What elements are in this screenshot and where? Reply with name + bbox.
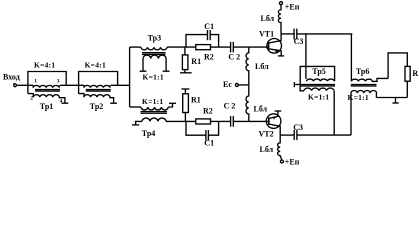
Tp4 winding top (legged)	[141, 107, 168, 110]
svg-text:Lбл: Lбл	[254, 104, 268, 113]
svg-text:C 2: C 2	[224, 101, 236, 110]
svg-text:C 2: C 2	[228, 53, 240, 62]
wire Tp2 to splitter	[111, 84, 130, 86]
input terminal Вход	[3, 72, 20, 86]
wire collector node top	[281, 33, 294, 35]
Tp4 right leg up	[168, 103, 172, 107]
emitter line up	[269, 111, 278, 118]
wire down to Tp5	[305, 34, 307, 67]
wire R bottom	[406, 81, 408, 97]
Tp5 box	[300, 66, 334, 84]
inductor Lbl collector VT2	[260, 135, 282, 160]
inverted ground at R1 bottom	[181, 88, 189, 90]
terminal Ec	[223, 80, 238, 89]
wire input to Tp1	[17, 84, 34, 86]
capacitor C3 top	[294, 29, 304, 46]
svg-text:Вход: Вход	[3, 72, 20, 81]
svg-text:K=1:1: K=1:1	[308, 93, 329, 102]
wire C2 to VT1 base	[233, 46, 268, 48]
svg-text:Lбл: Lбл	[261, 14, 275, 23]
collector line	[269, 34, 282, 43]
emitter line	[269, 49, 282, 56]
Tp6 winding 2	[351, 91, 377, 94]
wire R2b to C2b	[211, 120, 231, 122]
inverted ground at VT2 emitter	[275, 110, 282, 112]
svg-text:3: 3	[57, 79, 60, 85]
Tp4 core	[141, 111, 168, 113]
Tp3 core	[142, 52, 166, 54]
Tp3 left foot	[140, 70, 147, 72]
svg-text:C3: C3	[293, 123, 303, 132]
svg-text:C1: C1	[204, 22, 214, 31]
Tp5 left terminal bar	[293, 82, 295, 87]
collector line down	[269, 124, 280, 135]
Tp1 outline	[28, 72, 66, 94]
Tp6 winding 1	[351, 78, 388, 81]
wire Tp6 winding2 to ground line	[375, 93, 377, 97]
Tp2 core	[86, 89, 111, 91]
wire down to Tp6	[350, 34, 352, 82]
inductor Lbl collector VT1	[261, 5, 282, 34]
svg-text:C3: C3	[294, 37, 304, 46]
svg-text:+Еп: +Еп	[285, 3, 300, 12]
transistor VT2	[259, 111, 281, 139]
svg-text:+Еп: +Еп	[285, 157, 300, 166]
wire C2b to VT2 base	[233, 120, 268, 122]
Tp3 winding bottom	[143, 55, 166, 59]
resistor R2 top	[196, 45, 214, 62]
Tp4 winding bottom (through)	[142, 118, 166, 121]
capacitor C1 bottom	[186, 121, 219, 147]
transformer Tp2	[79, 60, 118, 111]
svg-text:R2: R2	[204, 53, 214, 62]
Tp1 winding 2-4	[28, 94, 59, 98]
svg-text:Тр2: Тр2	[90, 102, 103, 111]
emitter arrow	[275, 49, 278, 52]
svg-text:Тр5: Тр5	[312, 67, 325, 76]
Tp3 right leg	[165, 59, 167, 72]
wire Ec to chokes	[238, 84, 248, 86]
wire Tp1 to Tp2	[60, 84, 84, 86]
resistor R load	[405, 66, 418, 81]
capacitor C3 bottom	[293, 123, 303, 140]
ground at VT1 emitter	[278, 55, 284, 57]
Tp1 pin4 wire	[59, 97, 65, 103]
wire C3b to Tp6 leg	[297, 134, 351, 136]
Tp2 winding bottom	[79, 94, 110, 98]
capacitor C2 bottom	[224, 101, 236, 126]
svg-text:Ес: Ес	[223, 80, 232, 89]
Tp2 outline	[79, 72, 118, 94]
svg-text:Тр1: Тр1	[40, 102, 53, 111]
svg-text:K=1:1: K=1:1	[143, 72, 164, 81]
Tp3 winding top (through)	[141, 47, 167, 50]
svg-text:Тр6: Тр6	[356, 67, 369, 76]
ground at Tp1 pin 4	[62, 102, 69, 104]
wire Tp4 to R2 bottom	[166, 120, 196, 122]
Tp4 top bar	[169, 102, 176, 104]
ground stub at R	[395, 98, 397, 103]
Tp6 core	[351, 84, 377, 86]
Tp4 left leg down	[136, 121, 142, 124]
wire splitter to Tp4	[130, 106, 141, 108]
ground line at R bottom	[376, 97, 407, 99]
ground bar at R	[392, 102, 398, 104]
capacitor C2 top	[228, 42, 240, 62]
svg-text:R: R	[412, 69, 418, 78]
wire collector node bottom	[280, 134, 294, 136]
svg-text:VT2: VT2	[259, 130, 274, 139]
resistor R1 top	[180, 47, 201, 73]
Tp2 winding top	[84, 85, 110, 87]
wire R top	[388, 53, 407, 78]
Tp2 ground wire	[110, 97, 114, 103]
Tp5 winding 1	[306, 79, 334, 81]
inductor Lbl base bottom	[246, 85, 268, 122]
capacitor C1 top	[186, 22, 219, 47]
resistor R1 bottom	[181, 89, 200, 121]
Tp3 right foot	[163, 70, 170, 72]
svg-text:Lбл: Lбл	[260, 145, 274, 154]
ground bar at Tp4	[132, 124, 139, 126]
svg-text:4: 4	[60, 99, 63, 105]
ground at R1	[180, 72, 192, 74]
terminal +Ep bottom	[280, 157, 299, 166]
Tp3 left leg	[142, 59, 144, 72]
Tp1 winding 1-3	[33, 85, 59, 87]
svg-text:Тр3: Тр3	[148, 34, 161, 43]
svg-text:Lбл: Lбл	[255, 62, 269, 71]
wire C3 to Tp6 feed	[297, 33, 353, 35]
svg-text:K=4:1: K=4:1	[34, 60, 55, 69]
Tp5 feed stub	[305, 66, 307, 79]
Tp5 core	[300, 84, 335, 86]
svg-text:VT1: VT1	[259, 30, 274, 39]
svg-text:R1: R1	[191, 57, 201, 66]
svg-text:2: 2	[30, 96, 33, 102]
transistor VT1	[259, 30, 282, 56]
ground at Tp2	[110, 102, 117, 104]
svg-text:1: 1	[34, 79, 37, 85]
wire Tp3 to R2	[167, 46, 196, 48]
emitter arrow	[273, 117, 276, 120]
transformer Tp3	[130, 34, 170, 82]
wire Tp5 down	[333, 91, 335, 135]
wire Tp6 down	[350, 93, 352, 135]
splitter vertical wire	[129, 47, 131, 107]
svg-text:K=1:1: K=1:1	[142, 97, 163, 106]
svg-text:Тр4: Тр4	[142, 129, 155, 138]
svg-text:R2: R2	[203, 107, 213, 116]
svg-text:R1: R1	[191, 96, 201, 105]
svg-text:K=4:1: K=4:1	[85, 60, 106, 69]
wire R2 to C2	[211, 46, 231, 48]
transformer Tp1	[28, 60, 68, 111]
Tp5 winding 2	[304, 88, 334, 91]
Tp1 core	[35, 89, 60, 91]
Tp5 left end wire	[295, 85, 304, 91]
svg-text:C1: C1	[204, 139, 214, 148]
wire splitter to Tp3	[130, 46, 141, 48]
transformer Tp4	[130, 97, 176, 138]
inductor Lbl base top	[246, 47, 269, 85]
transformer Tp5	[294, 66, 335, 101]
resistor R2 bottom	[196, 107, 213, 125]
transformer Tp6	[348, 67, 389, 102]
terminal +Ep top	[280, 2, 300, 12]
